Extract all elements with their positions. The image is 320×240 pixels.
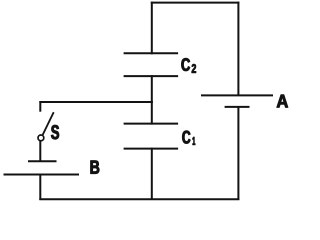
switch S contact circle <box>38 135 44 141</box>
label A <box>277 95 288 108</box>
wire C1 to bottom <box>151 148 153 200</box>
wire bottom horizontal <box>39 198 239 200</box>
battery B short plate <box>28 160 57 162</box>
wire battery B to bottom <box>39 175 41 201</box>
wire C2 to junction <box>151 75 153 103</box>
switch S blade <box>43 112 54 135</box>
battery A short plate <box>225 106 250 108</box>
label B <box>91 161 100 174</box>
wire left branch upper vertical <box>39 101 41 112</box>
label S <box>51 125 59 139</box>
capacitor C2 <box>124 53 179 76</box>
battery B long plate <box>4 174 80 176</box>
label C2 <box>182 58 197 73</box>
battery A long plate <box>201 94 273 96</box>
wire junction to C1 <box>151 101 153 125</box>
wire top horizontal <box>151 2 240 4</box>
wire horizontal switch branch <box>39 101 152 103</box>
wire right branch lower vertical <box>237 107 239 200</box>
label C1 <box>182 131 195 145</box>
capacitor C1 <box>124 124 179 149</box>
wire middle branch upper vertical <box>151 2 153 55</box>
wire right branch upper vertical <box>237 2 239 96</box>
wire switch to battery B <box>39 141 41 161</box>
